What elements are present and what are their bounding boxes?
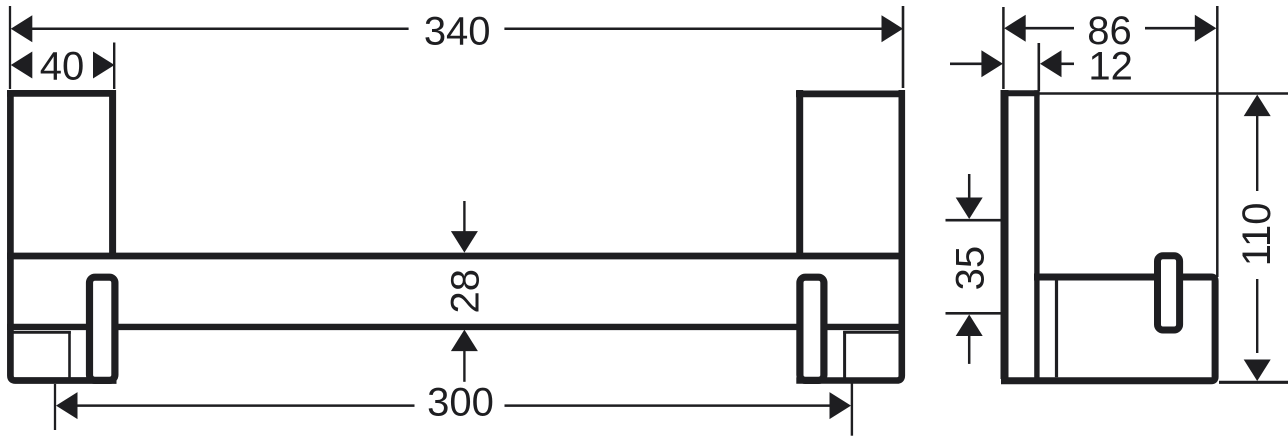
svg-text:12: 12: [1088, 45, 1133, 89]
svg-text:40: 40: [40, 45, 85, 89]
svg-text:340: 340: [424, 9, 491, 53]
svg-text:28: 28: [443, 269, 487, 314]
svg-text:110: 110: [1235, 203, 1279, 267]
svg-text:35: 35: [948, 246, 992, 291]
svg-text:300: 300: [427, 380, 494, 424]
